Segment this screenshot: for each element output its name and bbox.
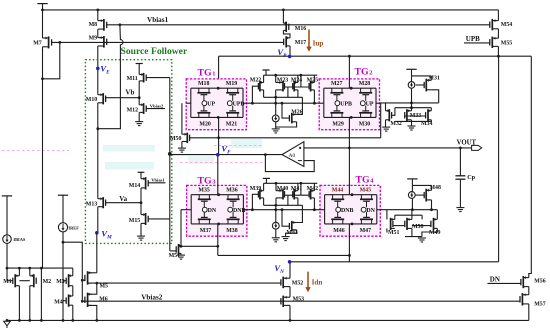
wire TG1 left terminal drop bbox=[181, 103, 183, 134]
transistor M35 bbox=[198, 195, 211, 208]
transistor M18 bbox=[197, 88, 210, 101]
svg-text:Va: Va bbox=[119, 195, 127, 203]
transistor M30 bbox=[359, 106, 372, 118]
svg-text:M20: M20 bbox=[199, 122, 211, 128]
node W268 M2 tap bbox=[28, 267, 31, 270]
transistor M56 bbox=[521, 276, 529, 288]
wire Vb wire bbox=[106, 97, 140, 99]
wire M2 drain bbox=[29, 268, 31, 276]
svg-text:DNB: DNB bbox=[341, 208, 354, 214]
wire opamp out wire bbox=[304, 147, 472, 149]
transistor M10 bbox=[98, 93, 106, 104]
svg-text:M2: M2 bbox=[43, 279, 52, 285]
ground M43 bbox=[282, 237, 290, 241]
svg-text:1: 1 bbox=[212, 71, 215, 78]
node DN M42 tap bbox=[313, 208, 316, 211]
wire lower wire2 bbox=[264, 204, 303, 206]
svg-text:M14: M14 bbox=[129, 183, 141, 189]
svg-text:M13: M13 bbox=[86, 202, 98, 208]
node M6 bus tap bbox=[95, 319, 98, 322]
artifact dashes bbox=[2, 150, 69, 152]
node VOUT cap tap bbox=[459, 147, 462, 150]
current source lower bias bbox=[272, 222, 279, 229]
wire TG1 bottom to VF bbox=[218, 117, 220, 154]
node Vbias1 tap bbox=[119, 23, 122, 26]
wire ground bus bbox=[6, 319, 529, 321]
wire M14 gate stub bbox=[148, 182, 165, 184]
VDD supply IBIAS supply bbox=[2, 195, 12, 197]
ground M51 bbox=[177, 255, 185, 259]
wire Vbias2 bus bbox=[82, 300, 520, 302]
node VP TG2 tap bbox=[348, 55, 351, 58]
svg-text:M46: M46 bbox=[333, 228, 345, 234]
wire TG1 right vertical bbox=[242, 88, 244, 117]
VDD supply top left bbox=[37, 3, 47, 5]
wire M13 source bbox=[97, 207, 99, 233]
VDD supply M11 supply bbox=[136, 63, 143, 65]
wire M3 gate lead bbox=[63, 280, 66, 282]
wire IBIAS to M1 bbox=[6, 243, 8, 268]
svg-text:M5: M5 bbox=[100, 284, 109, 290]
svg-text:M4: M4 bbox=[54, 299, 63, 305]
transistor M19 bbox=[226, 88, 239, 101]
wire TG2 top feed bbox=[348, 56, 350, 88]
svg-text:M45: M45 bbox=[360, 187, 372, 193]
wire M31 circle feed bbox=[411, 76, 413, 82]
svg-text:UPB: UPB bbox=[233, 101, 245, 107]
current source IBIAS bbox=[3, 235, 12, 244]
svg-text:DN: DN bbox=[490, 275, 500, 283]
svg-text:M8: M8 bbox=[89, 22, 98, 28]
node VP bbox=[288, 55, 292, 59]
svg-text:DN: DN bbox=[366, 208, 375, 214]
node DN M43 gate tap bbox=[281, 208, 284, 211]
svg-text:M28: M28 bbox=[359, 81, 371, 87]
node cascode crossing bbox=[410, 106, 413, 109]
node VM bbox=[95, 231, 99, 235]
wire M1 source bbox=[18, 286, 20, 321]
wire IREF to M5 gates bbox=[63, 242, 82, 301]
gate circle UPB bbox=[227, 101, 232, 106]
transistor M15 bbox=[141, 213, 148, 225]
wire M39 source bbox=[263, 198, 265, 205]
svg-text:M3: M3 bbox=[56, 279, 65, 285]
svg-text:Source Follower: Source Follower bbox=[121, 46, 188, 57]
wire TG1 left terminal bbox=[186, 102, 191, 104]
wire M58 M49 gates b bbox=[412, 225, 431, 227]
node M5 source node bbox=[95, 282, 98, 285]
wire M51 gate bbox=[170, 250, 176, 252]
VDD supply IREF supply bbox=[58, 194, 68, 196]
wire TG2 bottom to VOUT node bbox=[348, 117, 350, 147]
transistor M27 bbox=[330, 88, 343, 101]
wire VP bus bbox=[219, 55, 532, 57]
wire M51 source bbox=[180, 253, 182, 255]
wire M24 drain bbox=[297, 75, 299, 82]
current source M48 bias bbox=[408, 192, 415, 199]
VDD supply M14 supply bbox=[138, 171, 145, 173]
wire cascode ground stub bbox=[411, 121, 413, 125]
wire M15 source bbox=[140, 223, 142, 236]
wire TG4 right terminal bbox=[377, 209, 381, 211]
svg-text:M21: M21 bbox=[226, 122, 238, 128]
transistor M45 bbox=[360, 195, 373, 208]
node M7 source node bbox=[41, 77, 44, 80]
wire M41 source bbox=[297, 198, 299, 205]
wire M33 drain bbox=[411, 103, 413, 111]
wire left long vertical bbox=[42, 79, 44, 268]
gate circle UP bbox=[360, 101, 365, 106]
wire M23 source bbox=[275, 90, 277, 97]
wire M26 source bbox=[276, 122, 297, 127]
svg-text:M16: M16 bbox=[295, 26, 307, 32]
VDD supply M31 supply bbox=[406, 68, 416, 70]
wire M48 drain lead bbox=[431, 185, 433, 190]
node VF H1 crossing bbox=[217, 136, 220, 139]
wire M43 drain elbow bbox=[297, 205, 303, 222]
node M5 gate tap bbox=[81, 279, 84, 282]
wire VE to M13 bbox=[97, 103, 99, 199]
svg-text:TG: TG bbox=[355, 67, 370, 78]
artifact dashes bbox=[180, 162, 262, 164]
wire M41 drain bbox=[297, 183, 299, 190]
svg-text:M26: M26 bbox=[291, 110, 303, 116]
svg-text:M12: M12 bbox=[127, 108, 139, 114]
wire M7 gate bus bbox=[52, 41, 284, 43]
VDD supply M22 supply bbox=[262, 69, 269, 71]
wire upper cascode wire bbox=[395, 107, 431, 109]
svg-text:TG: TG bbox=[198, 176, 213, 187]
svg-text:M6: M6 bbox=[99, 297, 108, 303]
wire TG1 top rail bbox=[191, 87, 243, 89]
wire M17 source bbox=[289, 46, 291, 56]
svg-text:M39: M39 bbox=[250, 186, 262, 192]
wire M48 circle feed bbox=[411, 185, 413, 191]
wire M39 drain bbox=[263, 183, 265, 190]
wire M11 drain stem bbox=[138, 64, 140, 75]
wire DN node wire bbox=[247, 209, 320, 211]
wire lower circle ground lead bbox=[275, 229, 277, 238]
svg-text:UPB: UPB bbox=[340, 101, 352, 107]
wire TG2 left terminal bbox=[319, 102, 324, 104]
wire UPB input bbox=[464, 42, 490, 44]
node M51 drain tap bbox=[180, 245, 183, 248]
transistor M57 bbox=[520, 293, 529, 305]
transistor M36 bbox=[227, 195, 240, 208]
gate circle DNB bbox=[336, 207, 341, 212]
node DN M39 tap bbox=[251, 208, 254, 211]
wire TG1 right terminal bbox=[243, 102, 247, 104]
wire M33 source bbox=[411, 120, 413, 122]
svg-text:Vbias2: Vbias2 bbox=[141, 293, 163, 301]
node top rail M16 tap bbox=[282, 9, 285, 12]
artifact highlight bbox=[103, 145, 155, 152]
wire M22 rail stem bbox=[265, 70, 267, 75]
wire M4 source bbox=[72, 305, 74, 320]
transistor M46 bbox=[331, 212, 344, 224]
transistor M14 bbox=[141, 177, 148, 189]
svg-text:M57: M57 bbox=[534, 301, 546, 307]
svg-text:UP: UP bbox=[207, 101, 215, 107]
svg-text:Iup: Iup bbox=[313, 40, 324, 48]
VDD supply M48 supply bbox=[407, 178, 417, 180]
transistor M38 bbox=[227, 212, 240, 224]
transistor M2 bbox=[30, 274, 36, 287]
transistor M21 bbox=[226, 106, 239, 118]
wire M15 gate bbox=[148, 218, 170, 220]
wire lower circle feed bbox=[275, 205, 277, 222]
svg-text:DN: DN bbox=[208, 208, 217, 214]
node VE bbox=[96, 67, 100, 71]
wire TG1 top feed bbox=[218, 56, 220, 88]
svg-text:Vbias1: Vbias1 bbox=[151, 177, 165, 182]
wire VN bus bbox=[290, 261, 499, 263]
wire M52 M53 link bbox=[289, 287, 291, 298]
svg-text:M22: M22 bbox=[250, 77, 262, 83]
wire M57 source bbox=[528, 304, 530, 321]
node TG2 bottom center bbox=[350, 116, 353, 119]
transistor M22 bbox=[258, 81, 263, 92]
wire M26 drain elbow bbox=[297, 97, 303, 114]
wire M32 gate bbox=[392, 108, 395, 116]
wire M58 M49 gates bbox=[393, 225, 405, 227]
transmission gate box TG3 bbox=[187, 185, 247, 236]
transistor M53 bbox=[281, 296, 290, 307]
wire TG4 right vertical bbox=[376, 195, 378, 224]
wire M5 bias wire bbox=[88, 282, 281, 284]
svg-text:Idn: Idn bbox=[312, 279, 323, 287]
svg-text:M37: M37 bbox=[200, 228, 212, 234]
artifact highlight bbox=[105, 162, 154, 170]
wire M7line to bus bbox=[40, 268, 42, 320]
wire lower block bottom wire bbox=[405, 236, 422, 238]
ground M33 M34 bbox=[408, 126, 416, 130]
transistor M31 bbox=[424, 79, 431, 92]
wire lower gates wire bbox=[285, 194, 310, 196]
wire IBIAS stem bbox=[6, 196, 8, 235]
transistor M16 bbox=[283, 22, 288, 32]
current source IREF bbox=[58, 223, 67, 232]
wire M49 stub bbox=[421, 215, 423, 219]
transistor M23 bbox=[276, 81, 285, 92]
wire M22 drain bbox=[263, 75, 265, 82]
gate circle DN bbox=[361, 207, 366, 212]
transistor M17 bbox=[284, 36, 290, 47]
wire M25 drain bbox=[313, 75, 315, 82]
transistor M37 bbox=[198, 212, 211, 224]
transistor M48 bbox=[424, 189, 431, 202]
node UPB M22 tap bbox=[251, 102, 254, 105]
wire M51 drain tap wire bbox=[181, 245, 218, 247]
node M7 gate node bbox=[58, 41, 61, 44]
wire TG2 top rail bbox=[324, 87, 376, 89]
wire TG4 bottom rail bbox=[325, 223, 377, 225]
current arrow Iup bbox=[306, 30, 311, 52]
wire TG2 left vertical bbox=[323, 88, 325, 117]
wire TG4 left vertical bbox=[324, 195, 326, 224]
transistor M8 bbox=[98, 19, 107, 31]
node rail M41 tap bbox=[300, 182, 303, 185]
transistor M52 bbox=[281, 277, 290, 289]
transistor M41 bbox=[293, 189, 298, 199]
wire M16 drain bbox=[282, 10, 284, 23]
transistor M25 bbox=[309, 81, 314, 92]
wire M31 drain lead bbox=[430, 76, 432, 80]
wire M50 gate riser bbox=[380, 103, 382, 138]
node UPB circle tap bbox=[274, 102, 277, 105]
node rail M40 tap bbox=[275, 182, 278, 185]
wire M48 source bbox=[431, 200, 433, 210]
transistor M55 bbox=[490, 37, 499, 48]
svg-text:M27: M27 bbox=[331, 81, 343, 87]
node lower wire2 circle tap bbox=[274, 204, 277, 207]
svg-text:M50: M50 bbox=[170, 136, 182, 142]
wire M31 gate bbox=[416, 84, 425, 86]
wire mirror rail top bbox=[264, 74, 318, 76]
wire M5 gate stub bbox=[82, 279, 85, 281]
wire M7 drain bbox=[42, 10, 44, 38]
wire M32 source bbox=[385, 120, 387, 127]
transistor M13 bbox=[98, 197, 106, 208]
wire M31 supply stem bbox=[411, 69, 413, 76]
wire lower mirror rail bbox=[264, 182, 318, 184]
wire M40 source bbox=[275, 198, 277, 205]
svg-text:M32: M32 bbox=[390, 121, 402, 127]
wire M14 drain stem bbox=[140, 172, 142, 178]
wire circle feed bbox=[275, 97, 277, 115]
ground M49 M58 bbox=[418, 238, 426, 242]
wire circle to ground bbox=[275, 122, 277, 129]
wire M40 drain bbox=[275, 183, 277, 190]
wire M51b source stub bbox=[386, 228, 388, 232]
wire TG3 top feed bbox=[217, 155, 219, 195]
wire M22 source bbox=[263, 90, 265, 97]
wire TG4 bottom drop bbox=[348, 224, 350, 262]
wire Cp top lead bbox=[459, 148, 461, 176]
transistor M34 bbox=[426, 109, 432, 121]
transistor M3 bbox=[66, 274, 73, 287]
wire M1 drain bbox=[18, 268, 20, 276]
node M53 bus tap bbox=[289, 319, 292, 322]
wire VN riser bbox=[498, 56, 500, 262]
wire M42 drain bbox=[313, 183, 315, 190]
wire M23 drain bbox=[275, 75, 277, 82]
wire mirror gates wire bbox=[285, 86, 310, 88]
node rail M24 tap bbox=[300, 74, 303, 77]
wire M24 source bbox=[297, 90, 299, 97]
node M51 wire tap bbox=[216, 245, 219, 248]
svg-text:M34: M34 bbox=[421, 121, 433, 127]
current arrow Idn bbox=[305, 272, 310, 293]
wire M16-M17 link bbox=[283, 30, 290, 38]
node W268 left bbox=[6, 267, 9, 270]
node TG2 top center bbox=[350, 87, 353, 90]
wire VF feedback drop bbox=[169, 154, 171, 251]
transmission gate box TG1 bbox=[186, 79, 246, 130]
svg-text:2: 2 bbox=[369, 70, 372, 77]
node TG1 bottom center bbox=[217, 116, 220, 119]
wire M52 drain bbox=[289, 262, 291, 278]
node TG1 top center bbox=[217, 87, 220, 90]
wire TG3 left terminal bbox=[186, 209, 191, 211]
wire TG3 right vertical bbox=[242, 195, 244, 224]
wire TG3 right terminal bbox=[243, 209, 247, 211]
node rail center tap bbox=[410, 102, 413, 105]
ground upper bias bbox=[272, 129, 280, 133]
wire M12 source bbox=[138, 112, 140, 121]
svg-text:UPB: UPB bbox=[466, 35, 480, 43]
wire M51b drain stub bbox=[394, 215, 396, 219]
wire TG3 bottom drop bbox=[217, 224, 219, 256]
wire TG2 right rail bbox=[380, 102, 439, 104]
node M6 gate tap bbox=[81, 300, 84, 303]
wire M11 gate out bbox=[146, 77, 170, 79]
svg-text:M29: M29 bbox=[332, 122, 344, 128]
node top rail M8 tap bbox=[96, 9, 99, 12]
wire TG1 left vertical bbox=[190, 88, 192, 117]
wire M6 source ext bbox=[88, 305, 97, 320]
wire M5 drain arm ext bbox=[88, 272, 97, 274]
transistor M11 bbox=[139, 73, 146, 83]
wire TG1 bottom rail bbox=[191, 116, 243, 118]
wire M3 M4 link bbox=[72, 286, 74, 296]
wire M43 gate bbox=[282, 210, 289, 227]
svg-text:TG: TG bbox=[198, 68, 213, 79]
wire Vbias1 bus bbox=[107, 24, 490, 26]
capacitor Cp bbox=[455, 176, 465, 179]
wire M8 drain bbox=[97, 10, 99, 21]
node VN bbox=[288, 260, 292, 264]
wire M31 drain wire bbox=[412, 75, 432, 77]
VDD supply M39 supply bbox=[263, 177, 270, 179]
wire top supply rail bbox=[43, 9, 499, 11]
node lower rail center tap bbox=[411, 208, 414, 211]
node TG3 top center bbox=[217, 193, 220, 196]
gate circle DNB bbox=[228, 207, 233, 212]
svg-text:M40: M40 bbox=[277, 186, 289, 192]
wire M25 source bbox=[313, 90, 315, 103]
wire TG2 right vertical bbox=[375, 88, 377, 117]
transmission gate box TG2 bbox=[319, 79, 379, 130]
current source upper bias bbox=[272, 115, 279, 122]
node VF left end bbox=[168, 152, 172, 156]
svg-text:M18: M18 bbox=[198, 81, 210, 87]
svg-text:UP: UP bbox=[366, 101, 374, 107]
wire DN input bbox=[488, 282, 521, 284]
transistor M43 bbox=[289, 221, 296, 232]
artifact highlight bbox=[231, 139, 262, 148]
transistor M49 bbox=[431, 218, 437, 230]
transistor M28 bbox=[359, 88, 372, 101]
wire M7 diode link bbox=[43, 42, 60, 78]
transistor M20 bbox=[197, 106, 210, 118]
wire VDD stem bbox=[42, 4, 44, 10]
wire TG4 top rail bbox=[325, 194, 377, 196]
transistor M47 bbox=[360, 212, 373, 224]
node VOUT TG tap bbox=[348, 147, 351, 150]
wire M49 drain corner bbox=[436, 210, 438, 220]
transistor M1 bbox=[13, 274, 20, 287]
op-amp A0 bbox=[282, 142, 304, 167]
node UPB M25 tap bbox=[313, 102, 316, 105]
svg-text:M7: M7 bbox=[33, 41, 42, 47]
wire TG2 bottom rail bbox=[324, 116, 376, 118]
ground M12 bbox=[135, 122, 143, 126]
gate circle DN bbox=[202, 207, 207, 212]
wire dump bus bbox=[218, 254, 350, 256]
node DN circle tap bbox=[274, 208, 277, 211]
svg-text:M23: M23 bbox=[277, 77, 289, 83]
